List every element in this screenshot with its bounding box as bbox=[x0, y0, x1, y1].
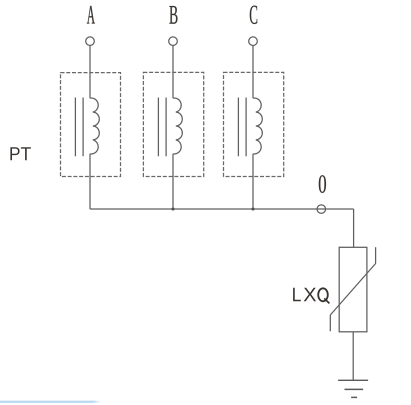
inductor coil C bbox=[253, 98, 262, 154]
wire B lower bbox=[172, 154, 174, 209]
wire phase C vertical bbox=[252, 46, 254, 99]
wire C lower bbox=[252, 154, 254, 209]
arrester diagonal bbox=[330, 264, 375, 316]
label P bbox=[10, 147, 19, 160]
terminal circle A bbox=[86, 37, 95, 46]
label X bbox=[304, 288, 316, 301]
wire bus to arrester bbox=[353, 209, 355, 247]
wire arrester to ground bbox=[352, 332, 354, 381]
junction node B bbox=[171, 207, 174, 210]
arrester LXQ body bbox=[339, 247, 367, 331]
wire phase A vertical bbox=[89, 46, 91, 99]
arrester bottom tick bbox=[329, 315, 331, 331]
neutral bus wire bbox=[90, 208, 354, 210]
label B bbox=[169, 6, 177, 24]
label 0 bbox=[319, 175, 326, 193]
core lines A bbox=[75, 98, 83, 157]
wire A lower bbox=[89, 154, 91, 209]
label L bbox=[293, 288, 301, 301]
inductor coil A bbox=[90, 98, 99, 154]
label C bbox=[250, 6, 257, 24]
junction node C bbox=[251, 207, 254, 210]
label A bbox=[87, 6, 95, 24]
blue artifact line bottom-left bbox=[0, 401, 101, 403]
label Q bbox=[318, 288, 329, 303]
label T bbox=[21, 147, 31, 160]
terminal circle O bbox=[317, 205, 326, 214]
terminal circle B bbox=[169, 37, 178, 46]
core lines C bbox=[238, 98, 246, 157]
core lines B bbox=[158, 98, 166, 157]
PT unit box A (dashed) bbox=[61, 73, 121, 177]
wire phase B vertical bbox=[172, 46, 174, 99]
PT unit box C (dashed) bbox=[224, 72, 284, 176]
inductor coil B bbox=[173, 98, 182, 154]
arrester top tick bbox=[375, 247, 377, 263]
PT unit box B (dashed) bbox=[143, 72, 203, 176]
ground symbol bbox=[338, 380, 368, 397]
terminal circle C bbox=[249, 37, 258, 46]
